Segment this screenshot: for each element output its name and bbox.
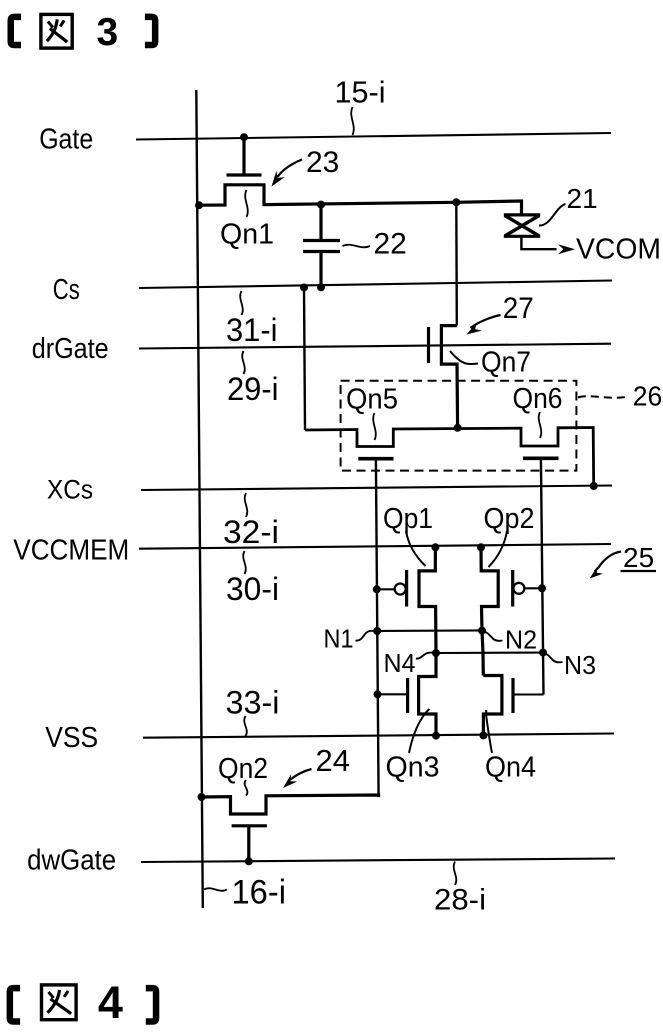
svg-text:Qn7: Qn7 [481,347,531,379]
svg-text:Qn6: Qn6 [513,383,563,415]
svg-text:Qn5: Qn5 [346,384,398,416]
svg-text:Qn3: Qn3 [386,751,440,783]
svg-text:N3: N3 [564,650,596,680]
svg-text:33-i: 33-i [226,685,280,721]
svg-text:Qn1: Qn1 [220,219,274,251]
svg-text:N4: N4 [384,648,416,678]
svg-text:VSS: VSS [45,722,98,754]
svg-text:29-i: 29-i [227,371,279,407]
svg-text:N1: N1 [324,624,354,654]
svg-text:22: 22 [374,228,407,261]
svg-text:23: 23 [306,146,339,179]
svg-text:24: 24 [316,743,350,778]
svg-text:Gate: Gate [39,123,93,155]
svg-text:Qn4: Qn4 [485,751,536,783]
svg-text:31-i: 31-i [226,312,278,348]
svg-text:drGate: drGate [32,333,109,365]
svg-text:15-i: 15-i [335,75,386,110]
svg-text:4: 4 [98,977,123,1028]
svg-text:26: 26 [633,381,663,412]
svg-text:Qp1: Qp1 [383,503,433,535]
svg-text:Cs: Cs [53,274,80,306]
svg-text:dwGate: dwGate [27,845,116,877]
svg-text:Qn2: Qn2 [218,753,268,785]
svg-text:VCCMEM: VCCMEM [13,535,129,567]
svg-text:XCs: XCs [47,475,93,505]
svg-text:3: 3 [97,11,119,54]
svg-text:27: 27 [503,292,534,325]
svg-text:VCOM: VCOM [576,234,661,266]
svg-text:32-i: 32-i [223,514,279,550]
svg-text:30-i: 30-i [226,571,279,607]
svg-text:28-i: 28-i [434,884,486,917]
svg-text:N2: N2 [505,625,537,655]
svg-text:21: 21 [567,183,598,214]
svg-text:25: 25 [623,542,654,573]
svg-text:Qp2: Qp2 [484,503,535,535]
svg-text:16-i: 16-i [232,874,287,912]
